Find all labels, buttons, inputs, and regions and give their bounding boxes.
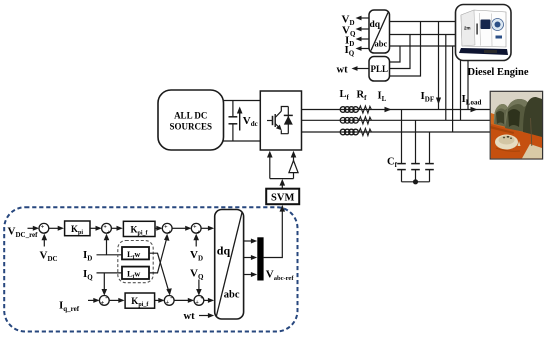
summer S6 — [164, 294, 174, 306]
wire SVM to inverter left gate with arrow — [267, 151, 273, 179]
wire SVM to inverter right gate with arrow and hollow triangle — [289, 151, 298, 179]
bus phase line b — [302, 119, 491, 121]
summer S4 — [191, 223, 201, 236]
wire vertical H3 to bus phase c — [452, 46, 454, 132]
block K_pi — [65, 221, 90, 236]
svg-text:+: + — [168, 230, 172, 236]
label V_Q with arrow down to S7 — [190, 268, 204, 296]
wire dq output 1 with arrow — [244, 239, 258, 244]
svg-text:dq: dq — [370, 20, 381, 30]
label I_q_ref with arrow into S5 — [59, 298, 100, 313]
svg-text:+: + — [200, 296, 204, 302]
wire dq output 3 with arrow — [244, 272, 258, 277]
V_dc arrow and label — [237, 107, 258, 131]
inductor L_f phase c — [340, 129, 358, 135]
wire S5 to Kpi_f lower with arrow — [109, 298, 124, 303]
diesel generator picture — [459, 10, 508, 55]
label wt with arrow into dq block — [184, 311, 215, 322]
wire S6 to S7 with arrow — [174, 298, 194, 303]
label V_DC_ref with arrow into summer — [8, 226, 40, 240]
wire decoupling cross from lower LfW to S3 with arrow — [149, 234, 170, 273]
svg-text:2m: 2m — [464, 26, 471, 31]
resistor R_f phase c — [359, 128, 372, 135]
SVM block — [266, 189, 299, 205]
wire I_D branch up to S2 with arrow — [104, 234, 110, 255]
wire S2 to Kpi_f with arrow — [111, 226, 122, 231]
wire SVM output up with arrow — [280, 179, 286, 189]
label I_Load with arrow on bus — [462, 93, 482, 112]
wire V_abc-ref into SVM with arrow — [264, 205, 286, 258]
svg-text:Lfw: Lfw — [127, 268, 141, 280]
svg-text:abc: abc — [224, 290, 240, 301]
summer S2 — [102, 223, 112, 236]
wire PLL tap 3 to phase line H1 — [390, 22, 421, 77]
svg-text:dq: dq — [217, 244, 231, 258]
wire diesel engine drop 1 — [460, 58, 462, 120]
capacitor C_f branch b — [411, 120, 420, 182]
svg-text:SOURCES: SOURCES — [169, 122, 212, 132]
label V_D with arrow up to S4 — [190, 234, 203, 263]
bus phase line a — [302, 109, 491, 111]
inductor L_f phase a — [340, 107, 358, 113]
summer S5 — [99, 293, 109, 306]
wire vertical H1 to bus phase a with I_DF arrow — [436, 22, 441, 110]
svg-text:wt: wt — [184, 311, 196, 322]
wire dq output 2 with arrow — [244, 255, 258, 260]
wire S3 to S4 with arrow — [172, 226, 191, 231]
inductor L_f phase b — [340, 118, 358, 124]
output V_D arrow and label — [342, 14, 370, 28]
block K_pi_f upper — [123, 221, 155, 236]
wt output arrow and label — [337, 65, 370, 76]
block K_pi_f lower — [125, 293, 155, 308]
label I_Q with wire to LfW block — [83, 268, 122, 282]
svg-text:wt: wt — [337, 65, 349, 76]
wire H2 dq to diesel engine — [390, 34, 457, 36]
wire I_Q branch down to S5 with arrow — [102, 273, 108, 296]
wire PLL tap 2 to phase line H2 — [390, 35, 411, 69]
svg-text:+: + — [166, 300, 170, 306]
PLL block U3 — [369, 57, 390, 82]
inverter block U1 — [260, 91, 301, 150]
svg-text:+: + — [107, 230, 111, 236]
wire DC rail top — [224, 100, 261, 102]
wire S1 to Kpi with arrow — [49, 226, 64, 231]
load picture frame — [490, 91, 542, 159]
label I_L with arrow — [378, 91, 392, 113]
wire Kpi to S2 with arrow — [90, 226, 102, 231]
wire DC rail bottom — [224, 140, 261, 142]
wire H1 dq to diesel engine — [390, 21, 457, 23]
svg-text:ALL DC: ALL DC — [174, 111, 207, 121]
wire S4 to dq block with arrow — [201, 226, 214, 231]
resistor R_f phase b — [359, 117, 372, 124]
capacitor DC link — [229, 101, 238, 142]
dq/abc measurement block U2 — [369, 10, 390, 53]
wire vertical H2 to bus phase b — [445, 35, 447, 121]
capacitor C_f branch a — [397, 110, 406, 182]
output I_Q arrow and label — [345, 44, 370, 58]
dq/abc transform block controller — [215, 210, 244, 320]
resistor R_f phase a — [359, 106, 372, 113]
IGBT symbol with antiparallel diode — [267, 107, 293, 134]
wire Kpi_f lower to S6 with arrow — [155, 298, 165, 303]
svg-text:SVM: SVM — [271, 193, 294, 204]
svg-text:Diesel Engine: Diesel Engine — [468, 67, 529, 78]
svg-text:+: + — [195, 300, 199, 306]
wire H3 dq to diesel engine — [390, 45, 456, 47]
wire diesel engine drop 2 — [467, 58, 469, 110]
wire S7 to dq block with arrow — [204, 298, 214, 303]
wire neutral rail with junction dot — [402, 179, 430, 184]
bus phase line c — [302, 131, 491, 133]
wire gate rail — [270, 178, 294, 180]
wire decoupling cross from upper LfW to S6 with arrow — [149, 253, 172, 295]
dashed control region border — [4, 207, 297, 331]
wire PLL tap 1 to phase line H3 — [390, 46, 401, 62]
summer S3 — [162, 223, 172, 236]
block L_fW upper — [122, 247, 149, 260]
summer S7 — [194, 296, 204, 306]
wire Kpi_f to S3 with arrow — [155, 226, 163, 231]
output V_Q arrow and label — [342, 25, 369, 39]
dashed decoupling container — [118, 241, 153, 283]
label I_D with wire to LfW block — [83, 249, 122, 263]
svg-text:+: + — [101, 300, 105, 306]
capacitor C_f branch c — [425, 132, 434, 182]
block L_fW lower — [122, 267, 149, 280]
svg-text:abc: abc — [375, 39, 388, 49]
ALL DC SOURCES block — [158, 90, 224, 150]
svg-text:Lfw: Lfw — [127, 249, 141, 261]
summer S1 — [39, 223, 49, 235]
svg-text:+: + — [197, 230, 201, 236]
label V_DC with arrow into summer S1 — [40, 234, 58, 263]
diesel engine enclosure box — [456, 5, 512, 61]
output bus bar — [257, 237, 263, 280]
output I_D arrow and label — [345, 35, 369, 49]
svg-text:PLL: PLL — [371, 64, 389, 74]
